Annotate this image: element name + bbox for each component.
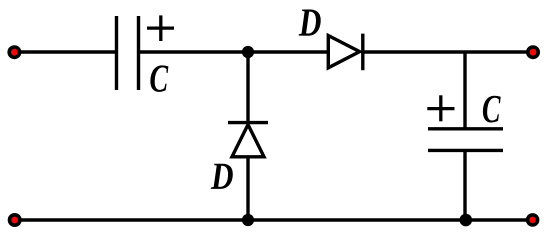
capacitor C (input series)	[117, 16, 139, 90]
node A junction dot (top middle)	[242, 46, 254, 58]
diode D (shunt, cathode up)	[228, 123, 268, 157]
wire bottom rail	[14, 218, 533, 221]
wire vertical below diode D to bottom rail	[246, 157, 249, 220]
diode D (series, anode left)	[328, 34, 363, 71]
wire top-right segment	[363, 50, 533, 53]
terminal top-left	[7, 45, 21, 59]
wire vertical from top rail to capacitor C (output)	[463, 52, 466, 129]
plus polarity mark of capacitor C (output)	[427, 95, 454, 121]
value label C of input capacitor	[150, 65, 168, 92]
wire vertical below capacitor C (output) to bottom rail	[463, 151, 466, 221]
wire top-middle segment	[140, 50, 329, 53]
capacitor C (output, polarized)	[428, 129, 503, 151]
terminal bottom-left	[8, 213, 22, 227]
wire vertical branch from node A to diode D	[246, 52, 249, 124]
terminal top-right	[526, 45, 540, 59]
plus polarity mark of capacitor C (input)	[147, 15, 174, 41]
junction dot (bottom middle)	[242, 214, 254, 226]
junction dot (bottom right)	[460, 214, 473, 227]
label D of series diode	[299, 9, 321, 35]
terminal bottom-right	[526, 213, 540, 227]
label D of shunt diode	[211, 164, 233, 189]
value label C of output capacitor	[483, 96, 501, 123]
wire top-left segment	[14, 50, 116, 53]
